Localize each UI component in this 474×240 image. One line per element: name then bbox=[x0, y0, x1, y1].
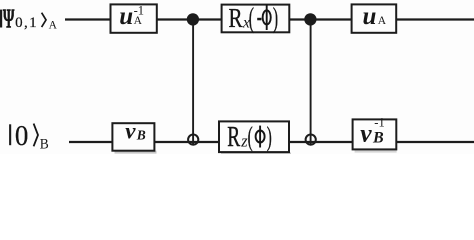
svg-text:R: R bbox=[229, 3, 244, 33]
svg-text:(: ( bbox=[249, 2, 254, 33]
svg-text:0: 0 bbox=[15, 120, 28, 152]
svg-text:0,1: 0,1 bbox=[15, 15, 38, 31]
svg-text:u: u bbox=[119, 3, 133, 30]
wire: qubit B horizontal wire bbox=[69, 141, 474, 143]
gate box U_A bbox=[352, 3, 397, 33]
node: CNOT-2 target oplus on wire B bbox=[306, 135, 316, 145]
gate box Rx(-phi) bbox=[222, 2, 290, 33]
gate box Rz(phi) with drop shadow bbox=[219, 121, 291, 154]
svg-text:R: R bbox=[227, 123, 240, 153]
svg-text:-1: -1 bbox=[134, 4, 144, 18]
gate box V_B^-1 with drop shadow bbox=[353, 115, 397, 152]
wire: qubit A horizontal wire bbox=[65, 18, 474, 20]
svg-text:): ) bbox=[273, 2, 278, 33]
wire: CNOT-1 vertical control line bbox=[192, 19, 194, 145]
node: ket label |0>_B input state qubit B bbox=[9, 120, 49, 153]
gate box V_B with drop shadow bbox=[112, 119, 156, 154]
node: CNOT-1 target oplus on wire B bbox=[188, 135, 198, 145]
node: CNOT-2 control dot on wire A bbox=[304, 13, 316, 25]
svg-text:B: B bbox=[136, 128, 146, 143]
svg-text:v: v bbox=[360, 119, 372, 148]
svg-text:B: B bbox=[372, 129, 384, 146]
svg-text:A: A bbox=[49, 20, 58, 32]
node: ket label |Psi_0,1>_A input state qubit A bbox=[0, 4, 58, 34]
svg-text:u: u bbox=[363, 3, 377, 30]
svg-text:Ψ: Ψ bbox=[3, 4, 15, 34]
svg-text:-1: -1 bbox=[374, 115, 384, 129]
node: CNOT-1 control dot on wire A bbox=[187, 13, 199, 25]
svg-text:): ) bbox=[267, 121, 272, 152]
svg-text:A: A bbox=[378, 15, 387, 27]
svg-text:B: B bbox=[40, 136, 49, 153]
wire: CNOT-2 vertical control line bbox=[310, 19, 312, 145]
gate box U_A^-1 bbox=[111, 3, 157, 33]
svg-text:v: v bbox=[125, 119, 136, 144]
svg-text:(: ( bbox=[248, 121, 253, 152]
